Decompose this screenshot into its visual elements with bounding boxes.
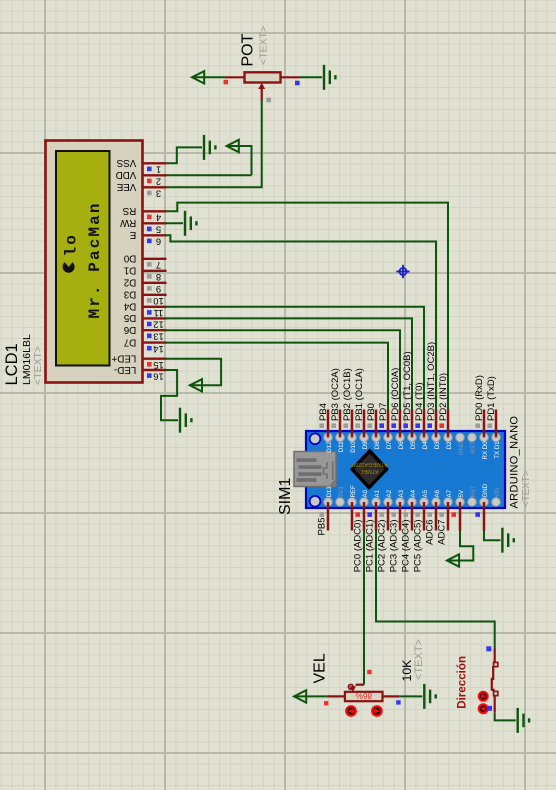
svg-text:VEL: VEL xyxy=(312,653,329,683)
svg-text:A2: A2 xyxy=(386,489,393,497)
svg-text:PB2 (OC1B): PB2 (OC1B) xyxy=(342,368,353,421)
wire POT right pin to ground xyxy=(300,76,323,78)
svg-text:RST: RST xyxy=(470,441,477,453)
svg-text:6: 6 xyxy=(156,237,161,248)
Arduino bottom pin D13 (PB5) xyxy=(317,502,328,535)
VEL pot increment control (red circle) xyxy=(372,706,382,716)
LCD pin 9 (D2) xyxy=(124,277,167,296)
label <TEXT> (SIM1) xyxy=(521,470,532,507)
node indicator square (button top net, blue) xyxy=(486,646,491,651)
label <TEXT> (POT) xyxy=(258,26,270,65)
svg-text:<TEXT>: <TEXT> xyxy=(521,470,532,507)
svg-text:ADC7: ADC7 xyxy=(437,520,448,545)
svg-text:RW: RW xyxy=(119,217,136,228)
node indicator square (VEL pin3 net, blue) xyxy=(396,700,400,704)
svg-text:LCD1: LCD1 xyxy=(3,343,21,385)
svg-text:PC2 (ADC2): PC2 (ADC2) xyxy=(377,520,388,573)
node indicator square (VEL wiper net, red) xyxy=(367,670,371,674)
svg-text:POT: POT xyxy=(240,33,257,66)
LCD pin 5 (RW) xyxy=(119,217,166,236)
Arduino top pin RX D0 (PD0 (RxD)) xyxy=(474,375,485,437)
svg-text:PD5 (T1, OC0B): PD5 (T1, OC0B) xyxy=(402,351,413,421)
svg-text:5V: 5V xyxy=(458,489,465,497)
wire A0 to VEL wiper xyxy=(363,531,365,685)
wire LCD D6 (pin13) to Arduino D6 xyxy=(166,330,400,410)
Arduino bottom pin A4 (PC4 (ADC4)) xyxy=(401,502,412,572)
svg-text:PD7: PD7 xyxy=(378,403,389,421)
svg-text:D11: D11 xyxy=(338,441,345,452)
svg-text:D3: D3 xyxy=(434,441,441,449)
Arduino bottom pin A6 (ADC6) xyxy=(425,502,436,545)
potentiometer VEL (10K) xyxy=(327,685,399,702)
svg-text:<TEXT>: <TEXT> xyxy=(258,26,270,65)
Arduino Nano SIM1 board xyxy=(306,431,505,508)
LCD pin 14 (D7) xyxy=(124,336,167,355)
label ARDUINO_NANO xyxy=(508,416,520,509)
potentiometer POT xyxy=(225,72,300,100)
svg-text:A3: A3 xyxy=(398,489,405,497)
wire POT left pin to +V arrow xyxy=(192,76,225,78)
svg-text:D10: D10 xyxy=(350,441,357,453)
svg-text:PD1 (TxD): PD1 (TxD) xyxy=(486,376,497,421)
svg-text:LM016LBL: LM016LBL xyxy=(21,334,33,385)
Arduino top pin D4 (PD4 (T0)) xyxy=(414,382,425,437)
Arduino top pin D3 (PD3 (INT1, OC2B)) xyxy=(426,342,437,438)
svg-text:PB4: PB4 xyxy=(318,403,329,421)
label <TEXT> (VEL) xyxy=(413,639,425,680)
svg-text:D2: D2 xyxy=(446,441,453,449)
wire VEL right pin to ground xyxy=(399,695,422,697)
Arduino top pin D12 (PB4) xyxy=(318,403,329,437)
Arduino top pin D11 (PB3 (OC2A)) xyxy=(330,368,341,437)
Arduino bottom pin A1 (PC1 (ADC1)) xyxy=(365,502,376,572)
svg-text:ATMEL: ATMEL xyxy=(360,468,378,474)
svg-text:ATMEGA328P: ATMEGA328P xyxy=(351,461,388,467)
svg-text:A0: A0 xyxy=(362,489,369,497)
ground (LED-) xyxy=(180,408,191,433)
svg-text:D8: D8 xyxy=(374,441,381,449)
wire RS (LCD pin4) to Arduino D2 xyxy=(166,203,448,410)
wire RW (LCD pin5) to ground xyxy=(166,222,183,224)
push button (Direccion) xyxy=(492,649,498,713)
svg-text:VEE: VEE xyxy=(116,181,136,192)
label LM016LBL xyxy=(21,334,33,385)
node indicator square (VEL pin1 net, red) xyxy=(324,701,328,705)
LCD screen text line2 'Mr. PacMan' xyxy=(86,201,104,318)
svg-text:RS: RS xyxy=(122,205,136,216)
svg-text:VSS: VSS xyxy=(116,157,136,168)
wire LCD D5 (pin12) to Arduino D5 xyxy=(166,318,412,410)
svg-text:TX D1: TX D1 xyxy=(494,441,501,459)
svg-text:14: 14 xyxy=(153,344,163,355)
svg-text:PC1 (ADC1): PC1 (ADC1) xyxy=(365,520,376,573)
LCD screen text line1 pacman glyph xyxy=(63,262,75,273)
Arduino bottom pin A3 (PC3 (ADC3)) xyxy=(389,502,400,572)
svg-text:<TEXT>: <TEXT> xyxy=(32,346,44,385)
Arduino mounting hole bottom-left xyxy=(310,496,321,507)
power +V symbol (LED+) xyxy=(190,379,202,391)
svg-text:PC5 (ADC5): PC5 (ADC5) xyxy=(413,520,424,573)
ground (POT right) xyxy=(324,65,335,90)
svg-text:5: 5 xyxy=(156,225,161,236)
svg-text:8: 8 xyxy=(156,272,161,283)
svg-text:Dirección: Dirección xyxy=(456,656,469,709)
svg-text:D13: D13 xyxy=(326,486,333,498)
origin marker (blue crosshair) xyxy=(396,265,409,278)
svg-text:10K: 10K xyxy=(400,659,414,682)
LCD pin 1 (VSS) xyxy=(116,157,166,176)
svg-text:D5: D5 xyxy=(410,441,417,449)
svg-text:D12: D12 xyxy=(326,441,333,453)
svg-text:PD4 (T0): PD4 (T0) xyxy=(414,382,425,421)
wire VEL left pin to +V arrow xyxy=(294,695,327,697)
ground (VEL) xyxy=(424,684,435,709)
svg-text:D6: D6 xyxy=(123,324,136,335)
LCD pin 8 (D1) xyxy=(124,265,167,284)
svg-text:4: 4 xyxy=(156,213,161,224)
svg-text:PB1 (OC1A): PB1 (OC1A) xyxy=(354,368,365,421)
svg-text:A5: A5 xyxy=(422,489,429,497)
power +V symbol (VEL) xyxy=(294,690,306,702)
Arduino bottom pin 5V (5V) xyxy=(451,502,460,531)
ground (VSS) xyxy=(204,135,215,160)
ground (Arduino GND) xyxy=(502,528,513,553)
LCD pin 2 (VDD) xyxy=(116,169,167,188)
svg-text:D7: D7 xyxy=(124,336,137,347)
wire LCD D7 (pin14) to Arduino D7 xyxy=(166,343,388,410)
svg-text:D4: D4 xyxy=(123,301,136,312)
wire E (LCD pin6) to Arduino D3 xyxy=(166,235,436,410)
Arduino bottom pin GND (GND) xyxy=(475,502,484,531)
svg-text:ARDUINO_NANO: ARDUINO_NANO xyxy=(508,416,520,509)
Arduino bottom pin A2 (PC2 (ADC2)) xyxy=(377,502,388,572)
Arduino top pin D5 (PD5 (T1, OC0B)) xyxy=(402,351,413,437)
label SIM1 xyxy=(277,478,294,515)
svg-text:PB3 (OC2A): PB3 (OC2A) xyxy=(330,368,341,421)
LCD pin 3 (VEE) xyxy=(116,181,166,200)
power +V symbol (5V) xyxy=(447,554,459,566)
power +V symbol (POT left) xyxy=(192,71,204,83)
Arduino bottom pin A7 (ADC7) xyxy=(437,502,448,545)
node indicator square (button bottom net, blue) xyxy=(487,706,492,711)
svg-text:D5: D5 xyxy=(123,312,136,323)
svg-text:GND: GND xyxy=(458,441,465,455)
wire POT wiper to LCD VEE xyxy=(166,100,262,187)
button actuator control lower (red circle) xyxy=(479,704,488,713)
svg-text:PB0: PB0 xyxy=(366,403,377,421)
LCD pin 7 (D0) xyxy=(123,253,166,272)
Arduino bottom pin REF (REF) xyxy=(351,502,354,531)
wire A1 to button xyxy=(376,531,495,649)
svg-text:LED-: LED- xyxy=(114,364,136,375)
svg-text:D1: D1 xyxy=(124,265,137,276)
svg-text:D4: D4 xyxy=(422,441,429,449)
svg-text:PD3 (INT1, OC2B): PD3 (INT1, OC2B) xyxy=(426,342,437,421)
label 10K xyxy=(400,659,414,682)
svg-text:13: 13 xyxy=(153,332,163,343)
svg-text:PD2 (INT0): PD2 (INT0) xyxy=(438,373,449,421)
svg-text:ADC6: ADC6 xyxy=(425,520,436,545)
Arduino top pin TX D1 (PD1 (TxD)) xyxy=(486,376,497,437)
svg-text:A1: A1 xyxy=(374,489,381,497)
ground (RW) xyxy=(185,211,196,236)
Arduino pin pads (top and bottom rows) xyxy=(324,433,501,506)
svg-text:3V3: 3V3 xyxy=(338,486,345,497)
svg-text:1: 1 xyxy=(156,165,161,176)
wire GND to ground xyxy=(484,531,501,541)
Arduino mounting hole top-left xyxy=(310,433,321,444)
LCD pin 6 (E) xyxy=(129,229,166,248)
Arduino on-board pin name labels xyxy=(326,441,501,498)
svg-text:E: E xyxy=(129,229,136,240)
svg-text:D7: D7 xyxy=(386,441,393,449)
LCD LCD1 body (LM016L, rotated) xyxy=(46,141,143,383)
svg-text:<TEXT>: <TEXT> xyxy=(413,639,425,680)
svg-text:Mr. PacMan: Mr. PacMan xyxy=(86,201,104,318)
svg-text:lo: lo xyxy=(63,233,81,256)
label <TEXT> (LCD1) xyxy=(32,346,44,385)
svg-text:GND: GND xyxy=(482,483,489,497)
svg-text:SIM1: SIM1 xyxy=(277,478,294,515)
wire LCD D4 (pin11) to Arduino D4 xyxy=(166,307,424,410)
node indicator square (POT wiper net, gray) xyxy=(266,98,271,103)
node indicator square (POT pin1 net, red) xyxy=(224,80,229,85)
Arduino MCU chip (ATMEGA328P diamond) xyxy=(350,449,389,491)
wire LED- (LCD pin16) to ground xyxy=(161,370,178,420)
svg-text:PD0 (RxD): PD0 (RxD) xyxy=(474,375,485,421)
svg-text:PC4 (ADC4): PC4 (ADC4) xyxy=(401,520,412,573)
LCD pin 13 (D6) xyxy=(123,324,166,343)
svg-text:A6: A6 xyxy=(434,489,441,497)
svg-text:PC3 (ADC3): PC3 (ADC3) xyxy=(389,520,400,573)
svg-text:A4: A4 xyxy=(410,489,417,497)
Arduino top pin D6 (PD6 (OC0A)) xyxy=(390,368,401,438)
LCD pin 16 (LED-) xyxy=(114,364,167,383)
LCD pin 10 (D3) xyxy=(123,289,166,308)
svg-text:PD6 (OC0A): PD6 (OC0A) xyxy=(390,368,401,421)
svg-text:PC0 (ADC0): PC0 (ADC0) xyxy=(353,520,364,573)
svg-text:D3: D3 xyxy=(123,289,136,300)
svg-text:9: 9 xyxy=(156,284,161,295)
LCD pin 11 (D4) xyxy=(123,301,166,320)
Arduino top pin D8 (PB0) xyxy=(366,403,377,437)
svg-text:D9: D9 xyxy=(362,441,369,449)
wire button bottom to ground xyxy=(495,713,516,721)
Arduino top pin D2 (PD2 (INT0)) xyxy=(438,373,449,437)
svg-text:LED+: LED+ xyxy=(111,353,136,364)
wire LCD VDD to +V arrow xyxy=(166,146,252,175)
svg-text:REF: REF xyxy=(350,485,357,497)
Arduino top pin D9 (PB1 (OC1A)) xyxy=(354,368,365,437)
power +V symbol (VDD) xyxy=(227,140,239,152)
node indicator square (POT pin2 net, blue) xyxy=(295,81,300,86)
svg-text:VIN: VIN xyxy=(494,487,501,497)
label LCD1 xyxy=(3,343,21,385)
svg-text:16: 16 xyxy=(153,371,163,382)
svg-text:A7: A7 xyxy=(446,489,453,497)
LCD pin 4 (RS) xyxy=(122,205,166,224)
VEL pot decrement control (red circle) xyxy=(346,706,356,716)
Arduino USB connector xyxy=(294,452,336,487)
wire LED+ (LCD pin15) to +V arrow xyxy=(166,359,221,386)
svg-text:D0: D0 xyxy=(123,253,136,264)
label Direccion xyxy=(456,656,469,709)
svg-text:7: 7 xyxy=(156,260,161,271)
label VEL xyxy=(312,653,329,683)
Arduino bottom pin A5 (PC5 (ADC5)) xyxy=(413,502,424,572)
LCD screen text line1 'lo' xyxy=(63,233,81,256)
Arduino top pin D10 (PB2 (OC1B)) xyxy=(342,368,353,437)
Arduino top pin D7 (PD7) xyxy=(378,403,389,438)
svg-text:3: 3 xyxy=(156,189,161,200)
label POT xyxy=(240,33,257,66)
Arduino bottom pin A0 (PC0 (ADC0)) xyxy=(353,502,364,572)
svg-text:RST: RST xyxy=(470,485,477,497)
button actuator control upper (red circle) xyxy=(479,692,488,701)
wire LCD VSS to ground xyxy=(166,147,202,163)
svg-text:10: 10 xyxy=(153,296,163,307)
LCD pin 12 (D5) xyxy=(123,312,166,331)
svg-text:D2: D2 xyxy=(124,277,137,288)
wire 5V to +V arrow xyxy=(447,531,473,561)
LCD pin 15 (LED+) xyxy=(111,353,166,372)
svg-text:RX D0: RX D0 xyxy=(482,441,489,460)
svg-text:2: 2 xyxy=(156,177,161,188)
svg-text:PB5: PB5 xyxy=(317,518,328,536)
svg-text:VDD: VDD xyxy=(116,169,137,180)
svg-text:D6: D6 xyxy=(398,441,405,449)
svg-text:86%: 86% xyxy=(356,691,372,700)
ground (button) xyxy=(518,708,529,733)
